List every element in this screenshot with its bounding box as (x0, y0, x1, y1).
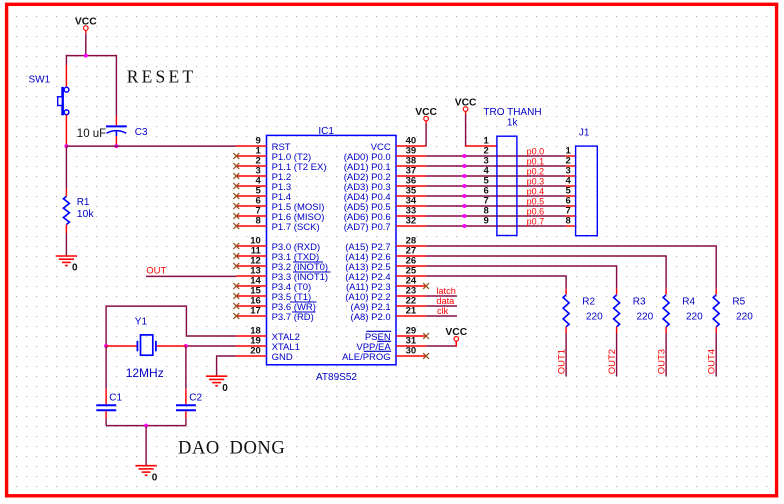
wire VCC down to junction (85, 34, 87, 56)
wire C3 branch down (115, 55, 117, 117)
svg-text:p0.1: p0.1 (527, 157, 545, 167)
resistor R5 (713, 295, 719, 327)
svg-text:17: 17 (250, 306, 261, 317)
resistor R4 (663, 295, 669, 327)
pin 40 VCC stub (396, 145, 426, 147)
pin R4 bottom (665, 327, 667, 333)
junction oscillator ground (144, 424, 148, 428)
svg-text:RESET: RESET (127, 66, 196, 86)
pin 38 (AD1) P0.1 stub (396, 165, 426, 167)
pin R1 bottom (65, 225, 67, 234)
junction crystal left (104, 344, 108, 348)
pin J1-5 stub (565, 195, 575, 197)
wire Y1 to C2 (185, 346, 187, 389)
resistor R1 (63, 196, 69, 224)
wire P2.4 to R2 (426, 276, 566, 289)
overline EA (under PSEN) (377, 340, 391, 342)
pin 19 XTAL1 stub (236, 345, 266, 347)
pin J1-1 stub (565, 155, 575, 157)
capacitor C1 (96, 405, 116, 410)
pin 4 P1.3 stub (236, 185, 266, 187)
pin J1-8 stub (565, 225, 575, 227)
pin R5 bottom (715, 327, 717, 333)
pin 37 (AD2) P0.2 stub (396, 175, 426, 177)
pin 39 (AD0) P0.0 stub (396, 155, 426, 157)
junction P0.5 (462, 204, 466, 208)
pin 30 ALE/PROG stub (396, 355, 426, 357)
pin 33 (AD6) P0.6 stub (396, 215, 426, 217)
pin J1-7 stub (565, 215, 575, 217)
svg-text:C2: C2 (189, 393, 202, 404)
svg-text:20: 20 (250, 346, 261, 357)
svg-text:OUT2: OUT2 (607, 349, 618, 374)
no-connect X pin 29 (423, 333, 429, 339)
pin C2 bottom (185, 411, 187, 418)
svg-text:220: 220 (637, 311, 654, 322)
wire C1-C2 bottom (106, 425, 186, 427)
svg-text:10 uF: 10 uF (77, 128, 106, 140)
wire P2.6 to R4 (426, 256, 666, 289)
junction P0.2 (462, 174, 466, 178)
pin SW1 bottom (65, 115, 67, 147)
svg-text:C3: C3 (135, 127, 148, 138)
svg-text:220: 220 (686, 311, 703, 322)
junction crystal right (184, 344, 188, 348)
ground 0 (oscillator) (135, 466, 156, 476)
overline PSEN (366, 330, 391, 332)
pin R5 top (715, 289, 717, 295)
no-connect X pin 15 (233, 293, 239, 299)
svg-text:SW1: SW1 (29, 74, 51, 85)
svg-text:21: 21 (406, 306, 417, 317)
svg-text:VCC: VCC (455, 97, 477, 108)
crystal Y1 (137, 335, 156, 355)
wire GND pin 20 (217, 356, 237, 376)
pin 28 (A15) P2.7 stub (396, 245, 426, 247)
pin R1 top (65, 189, 67, 197)
wire P0.0 to J1 (426, 155, 565, 157)
wire VCC down to network pin 1 (465, 115, 467, 147)
svg-text:ALE/PROG: ALE/PROG (342, 352, 391, 363)
switch SW1 (58, 87, 69, 115)
pin 34 (AD5) P0.5 stub (396, 205, 426, 207)
pin J1-4 stub (565, 185, 575, 187)
svg-text:GND: GND (272, 352, 293, 363)
no-connect X pin 12 (233, 263, 239, 269)
wire down to SW1 (65, 55, 67, 65)
svg-text:P3.7 (RD): P3.7 (RD) (272, 312, 314, 323)
svg-text:OUT1: OUT1 (556, 349, 567, 374)
pin 27 (A14) P2.6 stub (396, 255, 426, 257)
svg-text:(AD7) P0.7: (AD7) P0.7 (344, 222, 391, 233)
pin R2 top (565, 289, 567, 295)
pin J1-6 stub (565, 205, 575, 207)
svg-text:0: 0 (72, 263, 78, 274)
svg-text:p0.4: p0.4 (527, 187, 545, 197)
no-connect X pin 4 (233, 183, 239, 189)
wire P0.5 to J1 (426, 205, 565, 207)
no-connect X pin 6 (233, 203, 239, 209)
wire latch (426, 295, 457, 297)
svg-text:data: data (436, 296, 455, 306)
wire horizontal top of reset divider (66, 55, 116, 57)
svg-text:10k: 10k (77, 208, 95, 220)
no-connect X pin 8 (233, 223, 239, 229)
svg-text:clk: clk (437, 306, 449, 316)
svg-text:p0.7: p0.7 (527, 217, 545, 227)
pin 17 P3.7 (RD) stub (236, 315, 266, 317)
wire EA to VCC (426, 345, 456, 347)
no-connect X pin 3 (233, 173, 239, 179)
pin R3 top (616, 289, 618, 295)
underline (T1) (290, 301, 317, 303)
no-connect X pin 16 (233, 303, 239, 309)
wire clk (426, 315, 457, 317)
junction reset node left (64, 144, 68, 148)
no-connect X pin 2 (233, 163, 239, 169)
wire C2 down (185, 418, 187, 425)
pin C3 top (115, 117, 117, 127)
wire P0.7 to J1 (426, 225, 565, 227)
wire reset node to RST pin (66, 145, 236, 147)
junction P0.6 (462, 214, 466, 218)
svg-text:220: 220 (736, 311, 753, 322)
svg-text:OUT: OUT (146, 266, 166, 277)
pin 18 XTAL2 stub (236, 335, 266, 337)
pin 5 P1.4 stub (236, 195, 266, 197)
power VCC (EA pin) (445, 327, 467, 344)
svg-text:p0.2: p0.2 (527, 167, 545, 177)
junction P0.0 (462, 154, 466, 158)
ground 0 (GND pin) (206, 376, 227, 386)
wire data (426, 305, 457, 307)
svg-text:p0.3: p0.3 (527, 177, 545, 187)
pin 22 (A9) P2.1 stub (396, 305, 426, 307)
pin 35 (AD4) P0.4 stub (396, 195, 426, 197)
svg-text:1k: 1k (507, 117, 519, 128)
pin 11 P3.1 (TXD) stub (236, 255, 266, 257)
pin 10 P3.0 (RXD) stub (236, 245, 266, 247)
junction P0.3 (462, 184, 466, 188)
wire to oscillator ground (145, 426, 147, 466)
wire XTAL2 loop (106, 306, 236, 346)
no-connect X pin 11 (233, 253, 239, 259)
pin R3 bottom (616, 327, 618, 333)
svg-text:DONG: DONG (230, 438, 286, 458)
svg-text:0: 0 (222, 383, 228, 394)
svg-text:Y1: Y1 (135, 316, 148, 327)
power VCC (pin 40) (415, 107, 437, 124)
wire P0.3 to J1 (426, 185, 565, 187)
svg-text:P1.7 (SCK): P1.7 (SCK) (272, 222, 320, 233)
pin SW1 top (65, 65, 67, 87)
pin 2 P1.1 (T2 EX) stub (236, 165, 266, 167)
wire P0.6 to J1 (426, 215, 565, 217)
svg-text:(A8) P2.0: (A8) P2.0 (351, 312, 391, 323)
no-connect X pin 10 (233, 243, 239, 249)
wire XTAL1 (186, 345, 236, 347)
wire P2.5 to R3 (426, 266, 616, 289)
underline (TXD) (293, 261, 323, 263)
wire P0.1 to J1 (426, 165, 565, 167)
pin C3 bottom (115, 136, 117, 146)
svg-text:0: 0 (152, 472, 158, 483)
pin 21 (A8) P2.0 stub (396, 315, 426, 317)
svg-text:latch: latch (436, 286, 455, 296)
resistor R2 (563, 295, 569, 327)
svg-text:R3: R3 (633, 297, 646, 308)
svg-text:R5: R5 (732, 297, 745, 308)
pin 16 P3.6 (WR) stub (236, 305, 266, 307)
svg-text:OUT3: OUT3 (656, 349, 667, 374)
svg-text:IC1: IC1 (318, 126, 334, 137)
underline (WR) (292, 311, 316, 313)
svg-text:8: 8 (256, 216, 261, 227)
svg-text:220: 220 (586, 311, 603, 322)
junction VCC/reset (84, 54, 88, 58)
svg-text:p0.6: p0.6 (527, 207, 545, 217)
pin J1-2 stub (565, 165, 575, 167)
svg-text:12MHz: 12MHz (126, 366, 164, 380)
pin 12 P3.2 (INOT0) stub (236, 265, 266, 267)
svg-text:p0.0: p0.0 (527, 147, 545, 157)
junction C3/reset wire (114, 144, 118, 148)
svg-text:R4: R4 (682, 297, 695, 308)
pin 26 (A13) P2.5 stub (396, 265, 426, 267)
ground 0 (reset) (56, 256, 77, 266)
pin J1-3 stub (565, 175, 575, 177)
pin R2 bottom (565, 327, 567, 333)
pin 24 (A11) P2.3 stub (396, 285, 426, 287)
junction P0.7 (462, 224, 466, 228)
wire P0.2 to J1 (426, 175, 565, 177)
pin C1 top (105, 389, 107, 405)
pin 25 (A12) P2.4 stub (396, 275, 426, 277)
svg-text:C1: C1 (109, 393, 122, 404)
svg-text:DAO: DAO (178, 438, 220, 458)
junction P0.1 (462, 164, 466, 168)
svg-text:9: 9 (484, 216, 489, 227)
op IC1 AT89S52 body (267, 135, 397, 364)
wire OUT to pin 13 (146, 275, 236, 277)
pin 15 P3.5 (T1) stub (236, 295, 266, 297)
capacitor C2 (176, 405, 196, 410)
wire R4 output (665, 333, 667, 376)
pin 31 VPP/EA stub (396, 345, 426, 347)
wire VCC to pin 40 (425, 124, 427, 146)
pin 13 P3.3 (INOT1) stub (236, 275, 266, 277)
pin 14 P3.4 (T0) stub (236, 285, 266, 287)
resistor network TRO THANH body (497, 136, 517, 235)
no-connect X pin 7 (233, 213, 239, 219)
svg-text:VCC: VCC (75, 16, 97, 27)
power VCC (reset net) (75, 16, 97, 33)
wire down to R1 (65, 146, 67, 189)
pin 32 (AD7) P0.7 stub (396, 225, 426, 227)
overline PROG (under VPP/EA) (364, 350, 391, 352)
pin 7 P1.6 (MISO) stub (236, 215, 266, 217)
resistor R3 (614, 295, 620, 327)
svg-text:AT89S52: AT89S52 (316, 372, 357, 383)
no-connect X pin 5 (233, 193, 239, 199)
pin 6 P1.5 (MOSI) stub (236, 205, 266, 207)
wire P0.4 to J1 (426, 195, 565, 197)
no-connect X pin 1 (233, 153, 239, 159)
svg-text:VCC: VCC (445, 327, 467, 338)
wire R2 output (565, 333, 567, 376)
wire R3 output (616, 333, 618, 376)
junction P0.4 (462, 194, 466, 198)
pin 3 P1.2 stub (236, 175, 266, 177)
wire C1 down (105, 418, 107, 425)
no-connect X pin 24 (423, 283, 429, 289)
pin 29 PSEN stub (396, 335, 426, 337)
pin 36 (AD3) P0.3 stub (396, 185, 426, 187)
pin 20 GND stub (236, 355, 266, 357)
no-connect X pin 30 (423, 353, 429, 359)
svg-text:p0.5: p0.5 (527, 197, 545, 207)
pin 1 P1.0 (T2) stub (236, 155, 266, 157)
connector J1 body (576, 146, 598, 236)
wire R1 to ground (65, 233, 67, 256)
pin 23 (A10) P2.2 stub (396, 295, 426, 297)
wire Y1 to C1 (105, 346, 107, 389)
wire R5 output (715, 333, 717, 376)
capacitor C3 (polarized) (106, 126, 127, 136)
pin C1 bottom (105, 411, 107, 418)
svg-text:32: 32 (406, 216, 417, 227)
pin Y1 right (156, 345, 186, 347)
pin Y1 left (106, 345, 137, 347)
svg-text:30: 30 (406, 346, 417, 357)
power VCC (resistor network) (455, 97, 477, 114)
svg-text:8: 8 (566, 216, 571, 227)
pin R4 top (665, 289, 667, 295)
svg-text:J1: J1 (579, 128, 590, 139)
svg-text:R2: R2 (582, 297, 595, 308)
pin 9 RST stub (236, 145, 266, 147)
svg-text:R1: R1 (77, 197, 90, 208)
wire P2.7 to R5 (426, 246, 716, 289)
pin 1 network stub (465, 145, 497, 147)
svg-text:VCC: VCC (415, 107, 437, 118)
no-connect X pin 17 (233, 313, 239, 319)
underline (INOT0) (293, 271, 331, 273)
svg-text:OUT4: OUT4 (706, 349, 717, 374)
no-connect X pin 14 (233, 283, 239, 289)
pin C2 top (185, 389, 187, 405)
pin 8 P1.7 (SCK) stub (236, 225, 266, 227)
